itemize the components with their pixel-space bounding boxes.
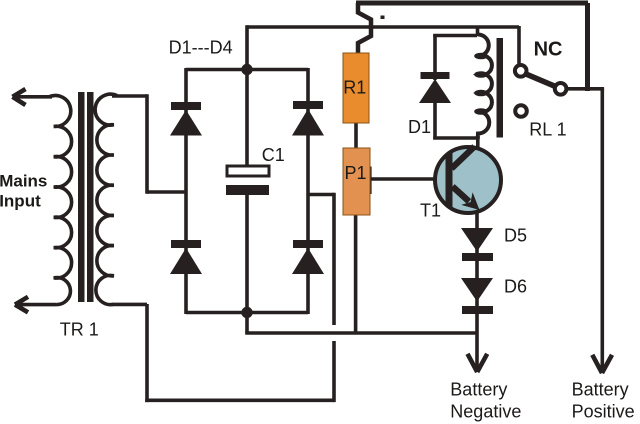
svg-text:Battery: Battery	[572, 380, 629, 400]
svg-text:R1: R1	[343, 78, 366, 98]
svg-text:Input: Input	[0, 192, 41, 211]
svg-text:D5: D5	[504, 226, 527, 246]
svg-text:Positive: Positive	[572, 401, 635, 421]
svg-text:D6: D6	[504, 277, 527, 297]
svg-text:NC: NC	[534, 39, 563, 61]
svg-text:TR 1: TR 1	[60, 319, 99, 339]
svg-text:P1: P1	[345, 163, 367, 183]
svg-text:RL 1: RL 1	[529, 120, 566, 140]
svg-text:D1: D1	[408, 117, 431, 137]
svg-text:C1: C1	[262, 145, 285, 165]
svg-text:Negative: Negative	[450, 401, 521, 421]
svg-text:T1: T1	[420, 201, 441, 221]
svg-text:Battery: Battery	[450, 380, 507, 400]
svg-text:Mains: Mains	[0, 171, 47, 190]
svg-text:D1---D4: D1---D4	[169, 38, 233, 58]
